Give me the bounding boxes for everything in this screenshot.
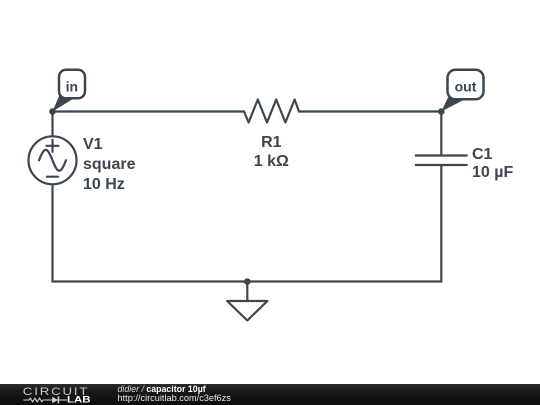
svg-text:1 kΩ: 1 kΩ [254,153,289,170]
V1 minus sign [47,176,58,178]
ground stub wire [246,282,248,302]
wire top-left (node in to resistor R1) [53,110,245,112]
wire left vertical lower (V1 bottom to bottom rail) [51,184,53,281]
footer bar [0,384,540,405]
footer url line [118,394,231,403]
capacitor C1 plates [416,156,467,166]
node dot out [438,108,445,115]
svg-text:in: in [66,79,78,95]
wire left vertical upper (node in to V1 top) [51,112,53,137]
ground triangle [227,301,267,321]
wire bottom rail [53,280,442,282]
CircuitLab logo [0,384,110,405]
svg-text:10 Hz: 10 Hz [83,176,125,193]
V1 sine wave [39,150,66,171]
wire right vertical upper (node out to C1 top plate) [440,112,442,156]
svg-text:LAB: LAB [67,395,91,405]
logo diode [52,396,67,403]
svg-text:10 µF: 10 µF [472,164,513,181]
flag tail for node in [53,95,73,112]
svg-text:square: square [83,156,136,173]
flag box node out [448,70,484,100]
logo resistor zigzag [23,398,52,402]
node dot in [49,108,56,115]
svg-text:R1: R1 [261,134,282,151]
wire right vertical lower (C1 bottom plate to bottom rail) [440,165,442,282]
flag box node in [59,70,85,99]
wire top-right (resistor R1 to node out) [299,110,441,112]
V1 plus sign [47,140,59,152]
flag tail for node out [441,96,464,112]
svg-text:C1: C1 [472,146,493,163]
voltage source V1 circle [29,136,77,184]
node dot ground junction [244,278,251,285]
svg-text:V1: V1 [83,136,103,153]
footer title line [118,385,206,394]
svg-text:out: out [455,79,477,95]
resistor R1 [244,100,299,123]
